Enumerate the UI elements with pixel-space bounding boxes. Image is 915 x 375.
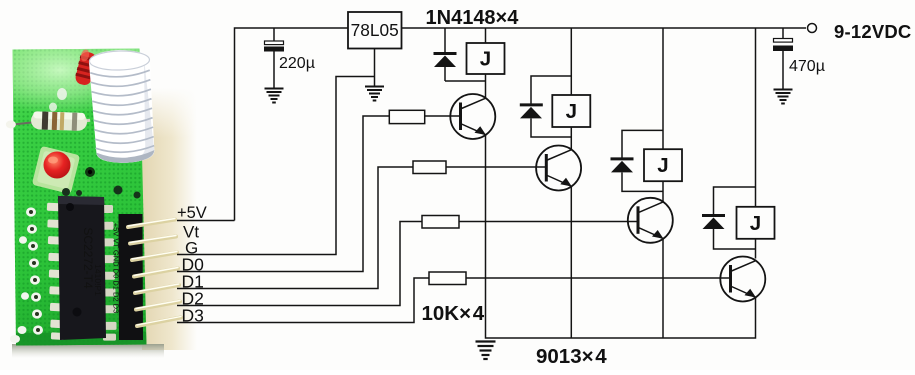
darker bottom edge strip	[16, 332, 147, 346]
relay J3	[644, 149, 682, 181]
wire J1 to Q1 collector	[485, 74, 487, 98]
ground for U1	[365, 87, 384, 101]
svg-text:1410!P1: 1410!P1	[93, 264, 103, 296]
wire +5V label to rail	[177, 220, 235, 222]
transistor Q3 9013	[628, 198, 673, 243]
diode D4a 1N4148	[702, 216, 725, 230]
wire D0 to R1	[177, 116, 389, 272]
wire 470u cap to rail and ground	[782, 28, 784, 39]
wire J1 to rail	[485, 28, 487, 43]
green perfboard	[13, 49, 147, 346]
ground for emitter bus	[476, 342, 496, 360]
shadow under board	[12, 344, 164, 358]
ground for C1	[265, 89, 284, 103]
resistor on pcb	[6, 110, 91, 131]
wire D3 to R4	[177, 278, 429, 323]
svg-text:9013× 4: 9013× 4	[536, 345, 607, 368]
svg-text:J: J	[750, 212, 761, 235]
diode D1a 1N4148	[434, 54, 457, 68]
wire J2 to rail	[570, 28, 572, 95]
svg-text:+5V: +5V	[177, 204, 207, 222]
black pin header	[119, 214, 144, 340]
wire R1 to Q1 base	[425, 115, 460, 117]
wire S1 bottom tie	[445, 80, 486, 82]
diode D2a 1N4148	[520, 105, 543, 119]
wire J4 to rail	[755, 28, 757, 207]
pins right	[99, 205, 117, 341]
wire main +V rail	[235, 28, 807, 221]
resistor R2 10K	[413, 161, 446, 174]
wire R3 to Q3 base	[459, 221, 638, 223]
dark via holes near coil bottom	[85, 167, 95, 177]
wire J3 to Q3 collector	[662, 181, 664, 202]
wire 78L05 to ground	[374, 49, 376, 87]
wire R2 to Q2 base	[446, 166, 546, 168]
wire S4 top tie	[714, 187, 756, 214]
wire S2 bottom tie	[531, 119, 571, 138]
capacitor C2 470u	[773, 39, 825, 76]
wire bottom emitter bus	[486, 135, 756, 338]
diode D3a 1N4148	[611, 159, 634, 173]
ground for C2	[774, 90, 793, 104]
svg-text:D3: D3	[182, 306, 204, 326]
terminal 9-12VDC	[808, 24, 817, 33]
wire S4 bottom tie	[714, 229, 756, 249]
wire R4 to Q4 base	[466, 277, 731, 279]
transistor Q2 9013	[536, 146, 581, 191]
capacitor C1 220u	[264, 41, 315, 72]
svg-text:J: J	[657, 154, 668, 177]
shadow band right of board	[142, 88, 197, 350]
wire diode D1a to rail	[444, 28, 446, 53]
svg-text:9-12VDC: 9-12VDC	[834, 21, 912, 42]
resistor R4 10K	[429, 272, 466, 285]
pins left	[47, 203, 65, 340]
IC chip	[47, 196, 117, 341]
svg-text:SC2272-T4: SC2272-T4	[81, 227, 95, 289]
resistor R3 10K	[422, 216, 459, 229]
wire G label to 78L05 ground	[177, 77, 375, 255]
wire 220u cap to rail and ground	[273, 28, 275, 41]
wire J3 to rail	[662, 28, 664, 149]
wire S3 bottom tie	[622, 173, 663, 192]
regulator U1 78L05	[348, 12, 402, 49]
red dome trimmer	[32, 146, 80, 194]
svg-text:J: J	[480, 48, 491, 71]
svg-text:220µ: 220µ	[279, 55, 315, 72]
white coil antenna	[89, 49, 155, 164]
svg-text:10K× 4: 10K× 4	[422, 302, 485, 325]
relay J4	[737, 207, 775, 239]
svg-text:78L05: 78L05	[351, 20, 399, 40]
body	[58, 196, 106, 340]
wire Q3 emitter down	[662, 239, 664, 338]
svg-text:1N4148×4: 1N4148×4	[426, 7, 520, 29]
wire J2 to Q2 collector	[570, 127, 572, 150]
transistor Q4 9013	[720, 257, 765, 302]
solder pad column left	[10, 88, 67, 343]
relay J1	[467, 43, 505, 74]
relay J2	[552, 95, 590, 127]
wire Q2 emitter down	[570, 187, 572, 339]
svg-text:J: J	[566, 100, 577, 123]
red coil component (top)	[74, 48, 99, 86]
resistor R1 10K	[389, 110, 424, 123]
wire D2 to R3	[177, 222, 422, 306]
wire D1 to R2	[177, 167, 413, 289]
7 header pins	[128, 220, 175, 228]
wire S3 top tie	[622, 130, 663, 157]
wire J4 to Q4 collector	[755, 239, 757, 259]
svg-text:470µ: 470µ	[789, 58, 825, 75]
transistor Q1 9013	[450, 94, 495, 139]
wire S2 top tie	[531, 76, 571, 104]
